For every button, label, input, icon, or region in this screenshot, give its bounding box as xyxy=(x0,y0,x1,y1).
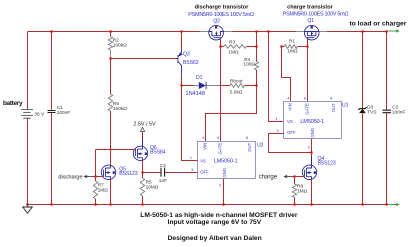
resistor R2 xyxy=(108,37,112,51)
node C1 bottom junction xyxy=(50,203,52,205)
wire Q5 source xyxy=(110,179,112,204)
svg-text:1nF: 1nF xyxy=(159,178,167,184)
node output C2 tap junction xyxy=(385,30,387,32)
svg-text:150kΩ: 150kΩ xyxy=(113,106,127,112)
wire Q1 drain lead stub xyxy=(296,31,304,33)
svg-text:1: 1 xyxy=(275,116,277,121)
svg-text:LM5050-1: LM5050-1 xyxy=(300,119,324,125)
node C1 top junction xyxy=(50,30,52,32)
wire U1 GND down xyxy=(311,139,313,166)
svg-text:BSS123: BSS123 xyxy=(119,171,137,177)
wire Q6 drain down xyxy=(142,161,144,179)
svg-text:to load or charger: to load or charger xyxy=(350,21,407,28)
wire Q2 source lead stub xyxy=(223,31,231,33)
wire Rboot to R4 node xyxy=(244,85,256,87)
wire C2 bottom xyxy=(386,113,388,204)
node U1 GND / Q4 drain junction xyxy=(310,151,312,153)
wire Q2-Q1 rail segment xyxy=(231,31,296,33)
node discharge/R7 junction xyxy=(94,175,96,177)
wire C1 top xyxy=(51,32,53,110)
wire discharge to Q5 gate xyxy=(93,176,104,178)
svg-text:OFF: OFF xyxy=(287,130,296,135)
wire D1 cathode to Rboot xyxy=(219,85,230,87)
node C2 bottom junction xyxy=(385,203,387,205)
wire Q3 collector xyxy=(181,76,183,86)
wire U2 GND down xyxy=(223,179,225,205)
svg-text:LM5050-1: LM5050-1 xyxy=(214,158,238,164)
svg-text:GND: GND xyxy=(222,168,227,178)
node R1 right / Q1 gate junction xyxy=(306,45,308,47)
svg-text:100nF: 100nF xyxy=(392,109,406,115)
wire Q2 drain lead stub xyxy=(201,31,209,33)
svg-text:GATE: GATE xyxy=(217,143,222,155)
battery V1 36V symbol xyxy=(21,110,33,119)
svg-text:VS: VS xyxy=(287,119,293,124)
svg-text:charge transistor: charge transistor xyxy=(287,4,334,10)
node Q5 source bottom junction xyxy=(109,203,111,205)
wire R5 bottom xyxy=(142,196,144,205)
wire R3 right xyxy=(246,46,256,48)
diode D1 1N4148 xyxy=(194,85,220,87)
wire U1 OFF loop xyxy=(269,134,312,153)
port arrow discharge xyxy=(84,175,93,178)
diode D3 TVS xyxy=(358,107,366,110)
svg-text:U1: U1 xyxy=(342,103,349,109)
node R1 left junction xyxy=(280,45,282,47)
resistor R7 xyxy=(95,177,97,182)
svg-text:battery: battery xyxy=(3,100,23,107)
svg-text:3: 3 xyxy=(277,128,279,133)
node D1 anode junction xyxy=(180,84,182,86)
svg-text:OUT: OUT xyxy=(247,142,252,151)
op-amp U2 LM5050-1 box xyxy=(198,142,256,179)
node R7 bottom junction xyxy=(94,203,96,205)
svg-text:2: 2 xyxy=(308,144,310,149)
ground symbol xyxy=(27,205,29,208)
resistor R5 xyxy=(140,178,144,196)
node R2 top junction xyxy=(109,30,111,32)
wire base of Q3 xyxy=(111,58,178,60)
svg-text:1MΩ: 1MΩ xyxy=(98,187,109,193)
power 2.5V/5V arrow xyxy=(142,133,144,146)
wire battery bottom xyxy=(27,119,29,205)
wire top rail from battery to Q2 xyxy=(28,31,201,33)
resistor R6 xyxy=(108,94,112,111)
svg-text:VIN: VIN xyxy=(202,143,207,150)
transistor Q5 BSS123 xyxy=(101,165,115,179)
wire Q2 gate vertical xyxy=(220,38,222,142)
node R3/R4 junction xyxy=(255,45,257,47)
node Q4 source bottom junction xyxy=(310,203,312,205)
wire rail to R3 node xyxy=(256,32,258,62)
svg-text:100Ω: 100Ω xyxy=(243,62,255,68)
svg-text:10MΩ: 10MΩ xyxy=(146,185,159,191)
transistor Q3 BSS63 (PNP) xyxy=(177,55,179,63)
wire C3 right to U2 OFF xyxy=(165,172,197,174)
svg-text:PSMN5R0-100ES 100V 5mΩ: PSMN5R0-100ES 100V 5mΩ xyxy=(283,12,349,18)
svg-text:PSMN5R0-100ES 100V 5mΩ: PSMN5R0-100ES 100V 5mΩ xyxy=(188,12,254,18)
wire left branch top xyxy=(96,149,111,151)
op-amp U1 LM5050-1 box xyxy=(284,102,342,139)
resistor R4 xyxy=(255,62,259,71)
node R6/Q5 cross junction xyxy=(110,149,112,151)
svg-text:1MΩ: 1MΩ xyxy=(228,49,239,55)
svg-text:36 V: 36 V xyxy=(34,112,45,118)
wire charge input to Q4 gate xyxy=(293,176,305,178)
svg-text:D1: D1 xyxy=(196,75,203,81)
wire U2 VS up to D1 node xyxy=(182,86,198,161)
svg-text:6: 6 xyxy=(304,95,306,100)
port arrow charge xyxy=(284,175,293,178)
wire C3 left xyxy=(143,172,161,174)
node R3 left junction xyxy=(219,45,221,47)
node R2/R6 junction xyxy=(109,57,111,59)
svg-text:Rboot: Rboot xyxy=(230,79,243,85)
svg-text:8: 8 xyxy=(330,95,332,100)
wire Q1-output rail segment xyxy=(327,31,387,33)
svg-text:U2: U2 xyxy=(257,143,264,149)
wire R2-R6 node xyxy=(110,50,112,58)
svg-text:C3: C3 xyxy=(160,163,166,169)
svg-text:100nF: 100nF xyxy=(57,110,71,116)
svg-text:Designed by Albert van Dalen: Designed by Albert van Dalen xyxy=(168,235,262,242)
wire left branch down xyxy=(95,150,97,177)
resistor R8 xyxy=(294,177,296,185)
wire battery top xyxy=(27,32,29,109)
svg-text:R3: R3 xyxy=(229,39,235,45)
node Q6/R5/C3 junction xyxy=(141,171,143,173)
wire Q6 gate xyxy=(111,149,136,151)
wire D3 top xyxy=(362,32,364,109)
svg-text:OUT: OUT xyxy=(331,103,336,112)
svg-text:VIN: VIN xyxy=(287,103,292,110)
wire Q5 drain xyxy=(110,150,112,166)
svg-text:GATE: GATE xyxy=(304,103,309,115)
svg-text:discharge: discharge xyxy=(58,175,82,181)
node R8 bottom junction xyxy=(293,203,295,205)
svg-text:VS: VS xyxy=(200,158,206,163)
svg-text:LM-5050-1 as high-side n-chann: LM-5050-1 as high-side n-channel MOSFET … xyxy=(140,212,298,219)
wire R4 bottom to U2 VIN jog xyxy=(206,70,257,142)
node U2 GND bottom junction xyxy=(222,203,224,205)
node rail junction above R4 xyxy=(255,30,257,32)
resistor R1 xyxy=(282,46,285,48)
wire D1 anode xyxy=(182,85,194,87)
transistor Q1 (PSMN5R0-100ES MOSFET) xyxy=(304,25,319,40)
node Q3 emitter rail junction xyxy=(180,30,182,32)
node rail junction for U1 VS xyxy=(267,30,269,32)
resistor Rboot xyxy=(230,84,244,88)
svg-text:2: 2 xyxy=(219,182,221,187)
node Rboot/R4 junction xyxy=(255,84,257,86)
wire bottom rail xyxy=(28,204,387,206)
svg-text:8: 8 xyxy=(246,135,248,140)
wire C2 top xyxy=(386,32,388,110)
svg-text:1: 1 xyxy=(190,155,192,160)
wire R1 left jog to U1 VIN xyxy=(282,47,291,102)
svg-text:BSS63: BSS63 xyxy=(183,60,199,66)
svg-text:1MΩ: 1MΩ xyxy=(297,188,308,194)
node D3 bottom junction xyxy=(361,203,363,205)
svg-text:1MΩ: 1MΩ xyxy=(287,49,298,55)
svg-text:Q1: Q1 xyxy=(307,18,314,24)
transistor Q4 BSS123 xyxy=(302,165,316,179)
svg-text:BSS123: BSS123 xyxy=(318,160,336,166)
resistor R3 xyxy=(224,45,247,49)
node R5 bottom junction xyxy=(141,203,143,205)
node charge/R8 junction xyxy=(293,175,295,177)
transistor Q6 BSS84 (P-channel) xyxy=(133,146,147,160)
wire Q1 source lead stub xyxy=(319,31,327,33)
svg-text:discharge transistor: discharge transistor xyxy=(195,4,250,10)
svg-text:5.6kΩ: 5.6kΩ xyxy=(230,89,243,95)
svg-text:3: 3 xyxy=(191,167,193,172)
svg-text:Q3: Q3 xyxy=(183,52,190,58)
transistor Q2 (PSMN5R0-100ES MOSFET) xyxy=(209,25,224,40)
capacitor C3 xyxy=(161,168,165,177)
svg-text:1N4148: 1N4148 xyxy=(185,91,204,97)
svg-text:Input voltage range 6V to 75V: Input voltage range 6V to 75V xyxy=(168,219,262,226)
capacitor C1 xyxy=(48,111,56,113)
wire rail to U1 VS xyxy=(269,32,284,122)
svg-text:charge: charge xyxy=(259,175,278,181)
node output port arrow (green) xyxy=(388,30,399,32)
wire Q4 source xyxy=(311,179,313,204)
svg-text:R1: R1 xyxy=(289,38,295,44)
svg-text:GND: GND xyxy=(310,128,315,138)
svg-text:6: 6 xyxy=(217,135,219,140)
svg-text:Q2: Q2 xyxy=(213,18,220,24)
wire R3 left xyxy=(221,46,224,48)
wire C1 bottom xyxy=(51,113,53,205)
capacitor C2 xyxy=(383,110,392,113)
svg-text:TVS: TVS xyxy=(367,109,376,115)
wire R2 top xyxy=(110,32,112,37)
node output D3 tap junction xyxy=(361,30,363,32)
wire Q1 gate vertical xyxy=(307,38,309,102)
svg-text:100kΩ: 100kΩ xyxy=(113,43,127,49)
wire D3 bottom xyxy=(362,113,364,204)
wire R6 bottom xyxy=(110,111,112,150)
wire Q3 emitter xyxy=(181,32,183,48)
svg-text:BSS84: BSS84 xyxy=(150,150,166,156)
node battery bottom junction xyxy=(26,203,28,205)
node bottom port arrow (green) xyxy=(388,203,399,205)
svg-text:2.5V / 5V: 2.5V / 5V xyxy=(133,121,156,127)
svg-text:OFF: OFF xyxy=(200,170,209,175)
